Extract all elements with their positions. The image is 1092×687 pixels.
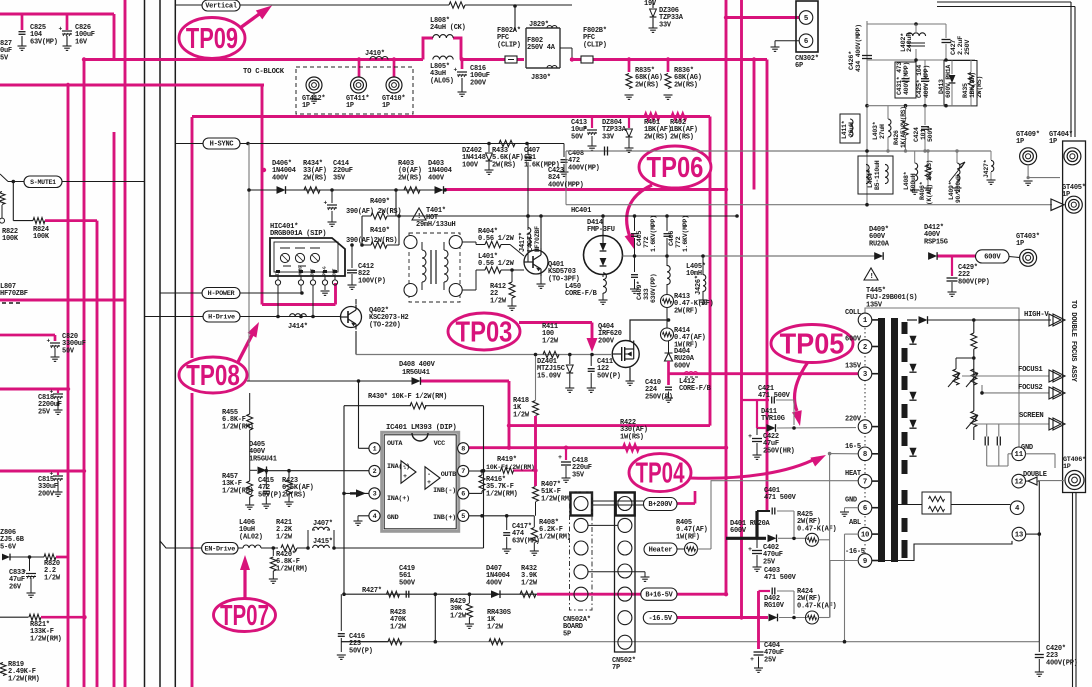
capacitor C429 — [947, 277, 958, 279]
capacitor C415 — [265, 471, 267, 489]
wire magenta HIC401 pin riser — [334, 283, 337, 305]
wire magenta stub GT410 — [393, 60, 396, 78]
svg-text:7: 7 — [461, 468, 465, 476]
capacitor C412 — [351, 245, 353, 268]
CN502A pin circle 4 — [574, 565, 588, 579]
svg-text:1P: 1P — [382, 102, 390, 110]
arrow TP08 — [238, 333, 253, 362]
svg-text:+: + — [403, 473, 407, 481]
svg-text:250V(HR): 250V(HR) — [763, 447, 795, 455]
capacitor C424 — [921, 126, 929, 128]
svg-text:250V 4A: 250V 4A — [527, 44, 556, 52]
label B+200V — [644, 498, 678, 511]
svg-text:-16-5: -16-5 — [845, 548, 865, 556]
svg-text:1.6KV(MPP): 1.6KV(MPP) — [650, 215, 657, 252]
svg-text:390(AF)2W(RS): 390(AF)2W(RS) — [346, 237, 397, 245]
svg-text:25V: 25V — [764, 656, 777, 664]
flyback driver D414 circle — [584, 236, 623, 275]
ABL ground — [845, 507, 859, 509]
wire pin11 right — [1026, 453, 1056, 455]
wire B+200V double link — [592, 500, 644, 502]
box D413-R435 — [944, 61, 977, 106]
junction — [708, 187, 712, 191]
svg-text:400V: 400V — [486, 579, 503, 587]
svg-text:TVR10G: TVR10G — [761, 415, 785, 423]
arrow TP03 pointing down — [587, 338, 598, 352]
frame top double line — [937, 1, 1071, 3]
svg-text:J426*: J426* — [695, 275, 703, 295]
flyback core bar 2 — [891, 318, 898, 562]
svg-text:EN-Drive: EN-Drive — [205, 545, 236, 553]
svg-text:33V: 33V — [602, 133, 615, 141]
svg-text:R426: R426 — [893, 130, 900, 145]
svg-text:5P: 5P — [563, 630, 571, 638]
capacitor C818 — [53, 393, 63, 395]
svg-text:400V(MPP): 400V(MPP) — [548, 181, 584, 189]
arrow TP09 — [240, 12, 262, 28]
resistor R409 — [362, 215, 371, 217]
wire magenta TP04 stub vertical — [694, 491, 697, 504]
IC401 pin 7 — [458, 465, 469, 476]
svg-text:500uH: 500uH — [910, 173, 917, 192]
wire magenta C403 branch vertical x=758.5 — [757, 591, 760, 649]
inductor L412 magenta coil — [684, 372, 697, 374]
wire magenta main horizontal y=59.5 left — [84, 58, 423, 61]
wire magenta TP03 horizontal y=322.5 — [519, 321, 592, 324]
junction — [739, 15, 743, 19]
svg-text:5: 5 — [461, 513, 465, 521]
wire FOCUS1 — [962, 375, 1049, 377]
svg-text:Heater: Heater — [649, 546, 673, 554]
arrow HIGH-V — [1049, 314, 1065, 326]
wire pin7 HEAT left — [711, 480, 858, 482]
wire magenta stub R836 — [667, 60, 670, 73]
IC401 pin 8 — [458, 443, 469, 454]
svg-text:1/2W(RM): 1/2W(RM) — [222, 423, 254, 431]
svg-text:INB(+): INB(+) — [433, 514, 456, 522]
svg-text:16-5: 16-5 — [845, 443, 861, 451]
wire DOUBLE to GT406 — [1037, 480, 1065, 482]
svg-text:2W(RS): 2W(RS) — [976, 76, 983, 98]
svg-text:100V: 100V — [462, 161, 479, 169]
wire magenta stub C429 — [951, 256, 953, 276]
svg-text:63V(MP): 63V(MP) — [30, 38, 58, 46]
svg-text:+: + — [750, 656, 754, 664]
svg-text:J830*: J830* — [531, 74, 551, 82]
svg-text:OUTA: OUTA — [387, 440, 403, 448]
wire magenta vertical x=192 TP08 net — [191, 117, 194, 358]
svg-text:+: + — [47, 338, 51, 345]
svg-text:B+16-5V: B+16-5V — [645, 591, 673, 599]
svg-text:CORE-F/B: CORE-F/B — [565, 290, 598, 298]
frame box TO DOUBLE FOCUS ASSY — [1063, 141, 1086, 493]
svg-text:200V: 200V — [470, 79, 487, 87]
resistor R402 — [672, 113, 687, 119]
svg-text:COLL: COLL — [845, 309, 861, 317]
resistor R430 — [344, 405, 411, 407]
wire black bus vertical 3 — [174, 0, 176, 687]
svg-text:L404*: L404* — [867, 169, 874, 188]
svg-text:INA(+): INA(+) — [387, 495, 410, 503]
junction — [666, 57, 670, 61]
IC401 pin 5 — [458, 510, 469, 521]
wire magenta stub to C826 — [66, 14, 69, 30]
zener DZ402 — [488, 144, 490, 153]
capacitor C405 — [634, 216, 636, 231]
pin 4 circle — [1010, 501, 1024, 515]
wire C419 row y=594.2 black part — [344, 593, 537, 595]
svg-text:-16.5V: -16.5V — [649, 615, 673, 623]
frame double border below box — [1072, 493, 1074, 687]
diode D412 — [928, 252, 937, 260]
svg-text:1/2W(RM): 1/2W(RM) — [541, 495, 573, 503]
wire magenta C421 branch — [742, 399, 770, 401]
wire link verticals — [434, 594, 436, 642]
resistor RR430S — [489, 639, 503, 645]
wire F802 to magenta — [560, 47, 572, 49]
wire magenta stub R835 — [628, 60, 631, 73]
svg-text:L411*: L411* — [841, 120, 848, 139]
junction — [66, 83, 70, 87]
resistor R423 — [288, 471, 290, 479]
warning triangle 2 — [864, 268, 878, 280]
svg-text:1P: 1P — [302, 102, 310, 110]
svg-text:INB(-): INB(-) — [433, 487, 456, 495]
svg-text:13: 13 — [1015, 531, 1024, 539]
svg-text:1P: 1P — [1063, 463, 1071, 471]
fusible resistor R425 — [806, 533, 819, 546]
thick trace C401 area — [726, 537, 766, 540]
wire CN302 pin6 ground — [775, 40, 799, 42]
junction — [724, 15, 728, 19]
svg-text:(CLIP): (CLIP) — [497, 41, 521, 49]
svg-text:TP03: TP03 — [456, 317, 513, 349]
wire R430 right vertical x=483.5 — [483, 406, 485, 548]
wire pin12 to frame — [1037, 480, 1039, 482]
svg-text:800V(PP): 800V(PP) — [958, 278, 990, 286]
resistor R835 — [626, 74, 632, 89]
svg-text:5V: 5V — [0, 54, 9, 62]
svg-text:1/2W(RM): 1/2W(RM) — [486, 490, 518, 498]
diode D411 — [767, 424, 776, 432]
wire pin2 net y=470.7 — [267, 470, 369, 472]
svg-text:1BK(AF): 1BK(AF) — [969, 72, 976, 98]
capacitor focus 1 — [984, 437, 986, 446]
wire magenta vertical x=710 — [709, 117, 712, 426]
junction — [724, 446, 728, 450]
wire magenta to D411 — [757, 427, 766, 429]
wire black bus vertical 2 — [159, 0, 161, 687]
capacitor C407 — [527, 144, 529, 156]
junction — [533, 446, 537, 450]
svg-text:R430* 10K-F 1/2W(RM): R430* 10K-F 1/2W(RM) — [368, 393, 447, 401]
resistor R429 — [468, 594, 470, 603]
capacitor C815 — [53, 475, 63, 477]
test point TP07 — [214, 599, 276, 632]
svg-text:R410*: R410* — [370, 227, 390, 235]
svg-text:1P: 1P — [346, 102, 354, 110]
svg-text:10: 10 — [861, 531, 869, 539]
CN502A pin circle 3 — [574, 541, 588, 555]
diode D407 — [491, 590, 500, 598]
svg-text:HC401: HC401 — [571, 207, 591, 215]
junction — [507, 423, 511, 427]
svg-text:+: + — [748, 433, 752, 441]
svg-text:0.47-K(AF): 0.47-K(AF) — [797, 525, 837, 533]
label S-MUTE1 — [24, 176, 62, 188]
resistor R416 — [469, 492, 482, 494]
svg-text:D413: D413 — [938, 79, 945, 94]
wire pin4 ground — [358, 515, 369, 517]
inductor L805 — [433, 56, 453, 59]
IC401 pin 6 — [458, 488, 469, 499]
fusible resistor R424 — [806, 611, 819, 624]
svg-text:R435: R435 — [962, 83, 969, 98]
wire magenta TP04 stub to B+200V — [677, 502, 695, 505]
junction — [66, 387, 70, 391]
svg-text:1: 1 — [373, 445, 377, 453]
svg-text:1P: 1P — [1016, 240, 1024, 248]
jumper J427 — [990, 151, 992, 160]
svg-text:!: ! — [417, 213, 421, 221]
svg-text:0.56 1/2W: 0.56 1/2W — [478, 260, 515, 268]
svg-text:1R5GU41: 1R5GU41 — [402, 369, 430, 377]
capacitor C406 — [666, 216, 668, 231]
junction — [533, 468, 537, 472]
svg-text:1/2W(RM): 1/2W(RM) — [276, 565, 308, 573]
label B+16-5V — [641, 588, 677, 600]
junction — [82, 469, 86, 473]
wire gray 16-5 vertical — [829, 454, 831, 618]
resistor R821 — [0, 616, 29, 618]
svg-text:6: 6 — [863, 505, 867, 513]
svg-text:1/2W(RM): 1/2W(RM) — [222, 487, 254, 495]
wire magenta jog down from L808 — [453, 38, 461, 60]
svg-text:R409*: R409* — [370, 198, 390, 206]
resistor R403 — [404, 187, 420, 193]
wire gray rail y=151 — [566, 150, 991, 152]
diode D403 — [435, 186, 444, 194]
wire HC401 rail y=216 — [633, 214, 637, 218]
connector GT412 — [306, 77, 322, 93]
wire jumper frame — [307, 530, 309, 548]
svg-text:7P: 7P — [612, 664, 620, 672]
flyback top diode to HIGH-V — [907, 319, 917, 321]
wire magenta jog up around L808 — [423, 38, 433, 60]
svg-text:C431* 473: C431* 473 — [896, 62, 903, 95]
wire magenta stub C816 — [461, 60, 464, 70]
resistor R407 — [533, 487, 539, 502]
wire magenta vertical x=262 — [261, 85, 264, 305]
wire pin8 left — [830, 453, 859, 455]
svg-text:600V RH1A: 600V RH1A — [945, 65, 952, 98]
svg-text:400V(MPP): 400V(MPP) — [903, 62, 910, 95]
svg-text:GND: GND — [845, 497, 857, 505]
svg-text:2W(RS): 2W(RS) — [282, 491, 306, 499]
wire D408 row y=381 — [247, 380, 412, 382]
svg-text:RU20A: RU20A — [869, 240, 890, 248]
wire FOCUS2 — [982, 392, 1049, 394]
junction — [564, 446, 568, 450]
CN502A pin circle 2 — [574, 518, 588, 532]
capacitor C421 — [771, 397, 773, 404]
wire H-SYNC rail — [240, 143, 564, 145]
svg-text:SCREEN: SCREEN — [1019, 412, 1044, 420]
svg-text:1/2W: 1/2W — [450, 612, 467, 620]
svg-text:TP08: TP08 — [186, 360, 240, 392]
svg-text:R427*: R427* — [362, 587, 382, 595]
capacitor C411 — [590, 355, 592, 367]
svg-text:C425* 104: C425* 104 — [916, 65, 923, 98]
test point TP05 — [771, 325, 853, 363]
wire pin10 ABL net — [845, 533, 859, 535]
svg-text:400V: 400V — [272, 174, 289, 182]
svg-text:35V: 35V — [333, 174, 346, 182]
diode D404 — [668, 341, 670, 353]
svg-text:1/2W: 1/2W — [542, 337, 559, 345]
svg-text:2W(RS): 2W(RS) — [670, 133, 694, 141]
transistor Q402 — [341, 307, 362, 328]
CN502 pin circle 7 — [618, 635, 632, 649]
svg-text:4: 4 — [373, 513, 377, 521]
wire magenta horizontal y=17.5 to CN302 pin5 — [726, 16, 800, 19]
svg-text:50V(P): 50V(P) — [258, 491, 282, 499]
junction dots y=151 — [886, 149, 889, 152]
svg-text:+: + — [59, 26, 63, 33]
resistor R419 — [469, 470, 501, 472]
svg-text:H-POWER: H-POWER — [208, 290, 236, 298]
wire magenta 135V rail y=373.7 — [669, 372, 859, 375]
svg-text:FMP-3FU: FMP-3FU — [587, 226, 615, 234]
diode D408 — [412, 377, 421, 385]
resistor R422 magenta zigzag — [623, 444, 639, 451]
CN502A pin circle 5 — [574, 587, 588, 601]
T401 secondary circles — [449, 236, 462, 249]
wire magenta left horizontal y=471 C815 — [0, 470, 84, 473]
test point TP03 — [448, 313, 520, 350]
svg-text:2: 2 — [373, 468, 377, 476]
inductor L408 + R406 — [915, 163, 918, 181]
svg-text:L403*: L403* — [872, 121, 879, 140]
wire magenta D404 to 135V rail — [667, 361, 670, 385]
wire black bus vertical 1 — [144, 0, 146, 687]
svg-text:1/2W: 1/2W — [487, 623, 504, 631]
wire magenta bus vertical x=125 — [124, 0, 127, 687]
capacitor C826 — [62, 30, 72, 32]
CN502 pin circle 6 — [618, 611, 632, 625]
junction — [752, 57, 756, 61]
wire magenta horizontal y=85 — [0, 84, 264, 87]
resistor R820 — [44, 554, 56, 560]
svg-text:11: 11 — [1015, 451, 1024, 459]
wire SCREEN — [974, 423, 1049, 425]
svg-text:HOBS: HOBS — [300, 266, 304, 276]
svg-text:1/2W: 1/2W — [390, 623, 407, 631]
svg-text:1/2W(RM): 1/2W(RM) — [8, 675, 40, 683]
svg-text:600V: 600V — [984, 254, 1001, 262]
CN502 pin circle 3 — [618, 541, 632, 555]
connector GT410 — [386, 77, 402, 93]
svg-text:HF70ZBF: HF70ZBF — [0, 290, 28, 298]
svg-text:J414*: J414* — [288, 323, 308, 331]
connector CN302 — [796, 1, 818, 52]
resistor R457 — [247, 481, 253, 497]
fuse block F802 — [526, 28, 560, 68]
resistor R435 — [968, 73, 974, 88]
wire magenta R419 link — [513, 469, 536, 471]
svg-text:471 500V: 471 500V — [764, 574, 797, 582]
wire Q404 source to ground — [629, 368, 631, 382]
svg-text:33V: 33V — [659, 21, 672, 29]
capacitor C825 — [19, 31, 26, 33]
wire magenta horizontal y=116.5 — [192, 115, 710, 118]
svg-text:6: 6 — [804, 38, 808, 46]
junction — [460, 57, 464, 61]
wire magenta R821 link — [41, 616, 85, 619]
test point TP04 — [629, 454, 691, 492]
inductor L403 — [888, 119, 891, 137]
IC401 op-amp A — [401, 461, 416, 484]
wire magenta bus vertical x=114 — [113, 132, 116, 687]
wire top cluster y=24 — [867, 23, 946, 25]
wire R409-R410 verticals — [361, 216, 363, 245]
wire heater net — [677, 548, 685, 550]
svg-text:1R5GU41: 1R5GU41 — [249, 455, 277, 463]
wire magenta top-left horizontal y=14 — [0, 13, 114, 16]
inductor L405 — [666, 256, 668, 266]
junction — [82, 615, 86, 619]
svg-text:7: 7 — [863, 478, 867, 486]
svg-text:(TO-220): (TO-220) — [369, 321, 401, 329]
svg-text:+: + — [748, 546, 752, 554]
svg-text:GND: GND — [387, 514, 399, 522]
focus resistor chain — [973, 320, 975, 333]
flyback rectifier diodes — [909, 336, 916, 344]
arrow TP04 curved — [690, 458, 817, 478]
arrow into GT405 — [566, 204, 1052, 206]
wire Vertical output — [240, 4, 449, 6]
capacitor C403 — [771, 588, 773, 595]
svg-text:8: 8 — [461, 445, 465, 453]
fusible resistor R405 — [685, 543, 698, 556]
svg-text:R406*: R406* — [919, 181, 926, 200]
CN502A pin circle 1 — [574, 497, 588, 511]
svg-text:OUT: OUT — [312, 268, 316, 275]
wire magenta left stub C820 y=335 — [0, 334, 55, 337]
wire magenta B+16-5V oval to bus — [676, 593, 726, 596]
box C431 — [895, 62, 916, 98]
zener DZ306 — [652, 0, 654, 8]
svg-text:100K: 100K — [33, 233, 50, 241]
svg-text:FOCUS1: FOCUS1 — [1018, 366, 1043, 374]
wire magenta center vertical x=754 — [753, 60, 756, 190]
HIC401 pins — [277, 276, 279, 280]
svg-text:D408 400V: D408 400V — [399, 361, 436, 369]
svg-text:400V: 400V — [428, 174, 445, 182]
inductor L404 box — [858, 156, 893, 194]
svg-text:101: 101 — [920, 129, 927, 140]
svg-text:1/2W(RM): 1/2W(RM) — [30, 635, 62, 643]
svg-text:500V: 500V — [399, 579, 416, 587]
svg-text:B+200V: B+200V — [648, 501, 673, 509]
wire R411 row y=354.5 — [356, 354, 611, 356]
resistor R822 — [0, 192, 5, 205]
resistor R411 — [543, 351, 559, 357]
svg-text:5-6V: 5-6V — [0, 543, 17, 551]
svg-text:1/2W: 1/2W — [521, 579, 538, 587]
label Vertical — [202, 0, 240, 11]
vertical feed x=867 — [866, 21, 868, 205]
